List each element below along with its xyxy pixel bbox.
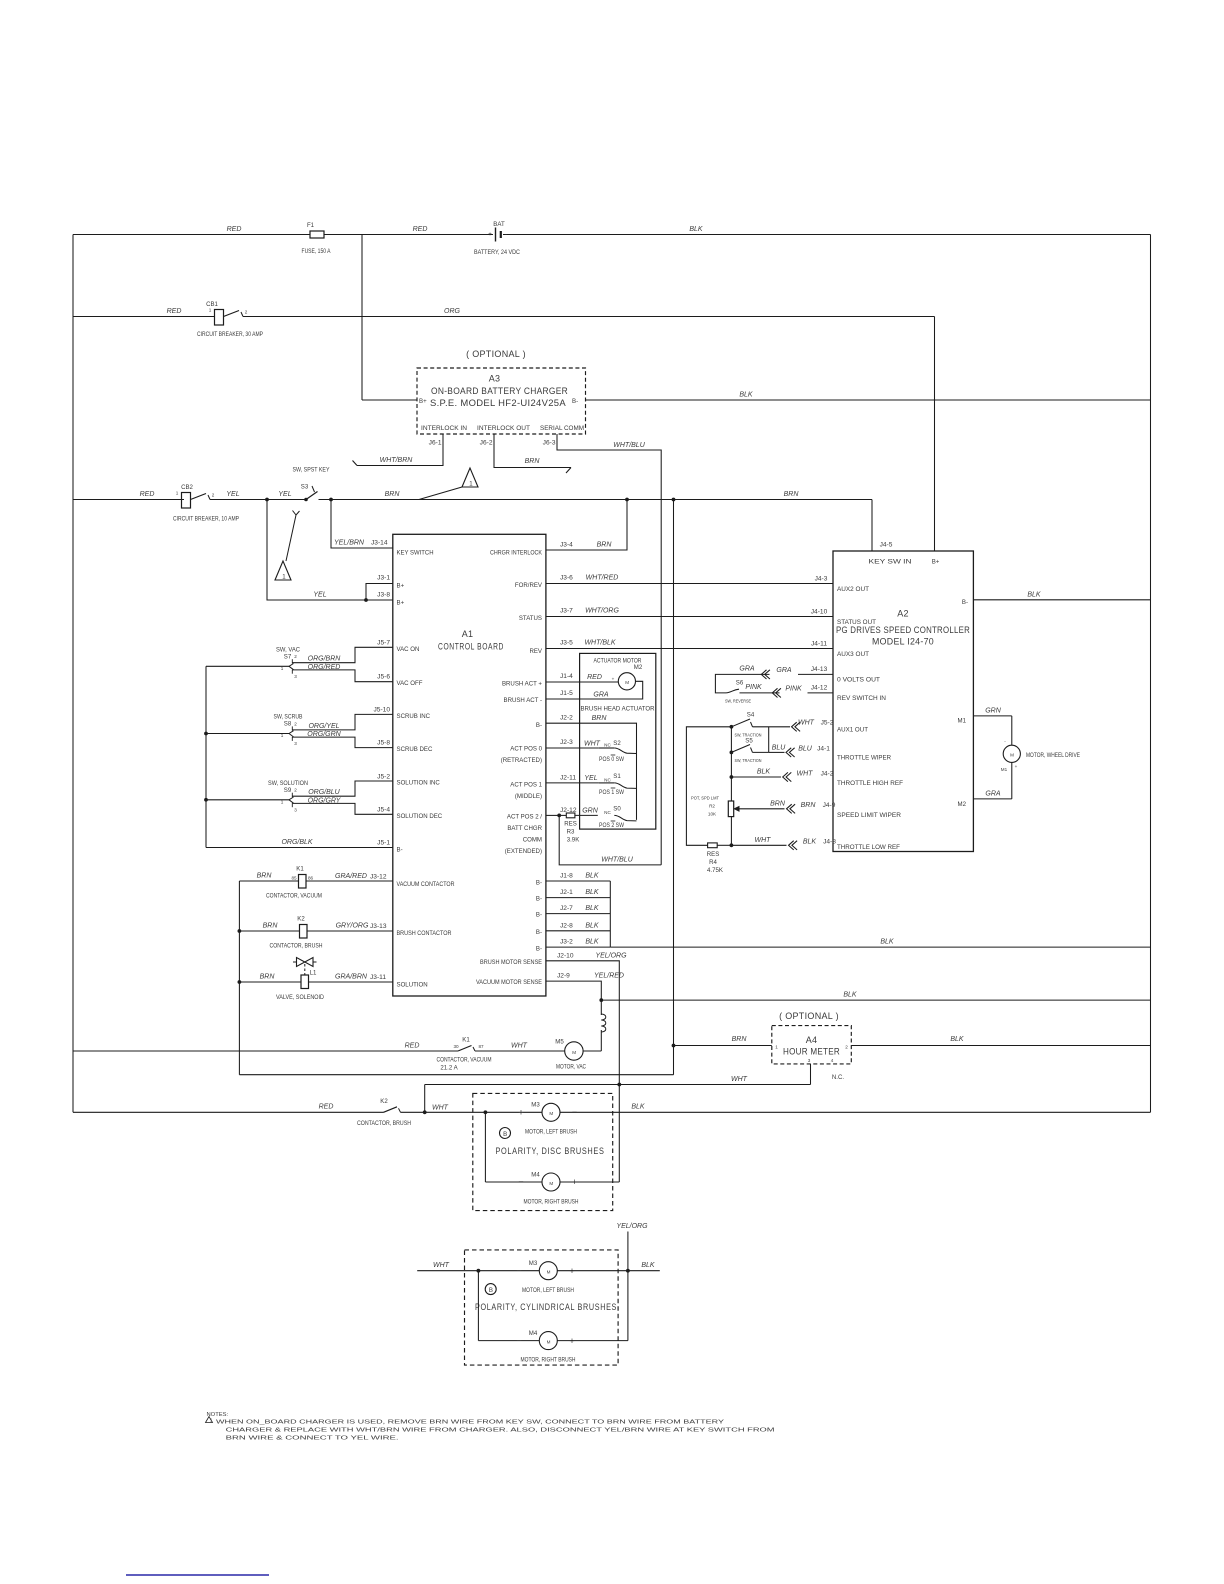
svg-text:1: 1 xyxy=(281,666,284,671)
svg-text:1: 1 xyxy=(210,1418,213,1423)
svg-text:−: − xyxy=(518,1177,523,1187)
svg-text:PINK: PINK xyxy=(785,685,802,692)
wire YEL/BRN to A1 J3-14 xyxy=(331,500,393,549)
page frame top wire (battery positive RED/BLK bus) xyxy=(73,234,310,236)
svg-text:WHT/BRN: WHT/BRN xyxy=(380,457,414,464)
cylindrical brush motor M4 MOTOR RIGHT BRUSH xyxy=(477,1271,479,1341)
svg-text:WHT: WHT xyxy=(755,837,772,844)
svg-text:REV SWITCH IN: REV SWITCH IN xyxy=(837,695,886,702)
svg-text:1: 1 xyxy=(176,491,179,496)
svg-text:S4: S4 xyxy=(747,712,755,719)
svg-text:BLK: BLK xyxy=(757,769,771,776)
svg-text:PG DRIVES SPEED CONTROLLER: PG DRIVES SPEED CONTROLLER xyxy=(836,625,970,635)
contactor coil K2 CONTACTOR BRUSH xyxy=(239,930,299,932)
svg-text:1: 1 xyxy=(281,799,284,804)
svg-text:+: + xyxy=(488,231,492,238)
svg-text:J3-6: J3-6 xyxy=(560,575,573,582)
svg-text:+: + xyxy=(518,1108,523,1118)
wire ORG row xyxy=(73,316,215,318)
svg-text:10K: 10K xyxy=(708,812,717,817)
svg-text:VACUUM MOTOR SENSE: VACUUM MOTOR SENSE xyxy=(476,979,542,986)
svg-text:BATTERY, 24 VDC: BATTERY, 24 VDC xyxy=(474,249,521,256)
svg-text:J2-9: J2-9 xyxy=(557,973,570,980)
svg-text:J4-1: J4-1 xyxy=(817,746,830,753)
svg-text:4: 4 xyxy=(831,1058,834,1063)
svg-text:WHT: WHT xyxy=(433,1262,450,1269)
svg-text:J4-11: J4-11 xyxy=(811,641,827,648)
wire BLK/WHT throttle high ref J4-2 xyxy=(731,776,781,778)
svg-text:ORG/RED: ORG/RED xyxy=(308,664,341,671)
svg-text:J3-4: J3-4 xyxy=(560,542,573,549)
wire WHT brush feed row xyxy=(425,1084,811,1086)
svg-text:BLK: BLK xyxy=(843,992,857,999)
svg-text:SW, SOLUTION: SW, SOLUTION xyxy=(268,780,308,787)
wire BRN to hour meter pin 1 xyxy=(674,1045,772,1047)
svg-text:4.75K: 4.75K xyxy=(707,867,723,874)
svg-text:SW, TRACTION: SW, TRACTION xyxy=(735,758,762,763)
svg-text:YEL: YEL xyxy=(278,491,291,498)
svg-text:WHT: WHT xyxy=(797,770,814,777)
wire ORG/BLK to J5-1 xyxy=(206,847,393,849)
svg-text:M2: M2 xyxy=(634,664,643,671)
svg-text:R4: R4 xyxy=(709,859,717,866)
wire A1 J3-6 to A2 J4-3 WHT/RED xyxy=(546,583,833,585)
traction switch S5 + BLU to J4-1 xyxy=(730,727,732,801)
svg-text:J4-9: J4-9 xyxy=(823,802,836,809)
polarity marker B (cylindrical) xyxy=(485,1284,496,1295)
svg-text:BRN: BRN xyxy=(257,873,273,880)
battery BAT 24VDC xyxy=(495,228,497,242)
svg-text:3: 3 xyxy=(294,807,297,812)
junction key row to J3-8 xyxy=(266,498,269,501)
svg-text:BRN: BRN xyxy=(592,715,608,722)
svg-text:BLK: BLK xyxy=(880,939,894,946)
svg-text:J4-3: J4-3 xyxy=(815,576,828,583)
svg-text:J2-1: J2-1 xyxy=(560,889,573,896)
svg-text:RED: RED xyxy=(227,226,242,233)
svg-text:STATUS OUT: STATUS OUT xyxy=(837,619,876,626)
wire BLK hour meter pin 2 to right rail xyxy=(851,1045,1150,1047)
svg-text:B-: B- xyxy=(536,880,542,887)
svg-text:SW, SCRUB: SW, SCRUB xyxy=(274,714,303,721)
resistor R3 3.9K xyxy=(546,814,559,816)
svg-text:BRUSH MOTOR SENSE: BRUSH MOTOR SENSE xyxy=(480,959,542,966)
svg-text:WHT/RED: WHT/RED xyxy=(586,575,619,582)
svg-text:BLK: BLK xyxy=(641,1262,655,1269)
wire S9 ORG/BLU xyxy=(292,781,393,796)
svg-text:M1: M1 xyxy=(1001,767,1008,772)
control board A1 box xyxy=(393,534,546,996)
svg-text:J3-13: J3-13 xyxy=(370,923,387,930)
contactor coil K1 CONTACTOR VACUUM xyxy=(239,880,298,882)
svg-text:GRA: GRA xyxy=(739,666,755,673)
svg-text:J1-8: J1-8 xyxy=(560,873,573,880)
svg-text:1: 1 xyxy=(281,733,284,738)
svg-text:J5-10: J5-10 xyxy=(374,707,391,714)
wire S8 ORG/YEL xyxy=(292,714,393,730)
left rail wire xyxy=(72,235,74,1113)
svg-text:K2: K2 xyxy=(297,916,305,923)
BRN bus vertical (key power to coils) xyxy=(673,500,675,1075)
key switch S3 SPST xyxy=(306,492,318,500)
svg-text:2: 2 xyxy=(212,493,215,498)
position switch S0 POS 2 SW xyxy=(614,815,636,821)
svg-text:YEL: YEL xyxy=(226,491,239,498)
svg-text:BRN: BRN xyxy=(525,458,541,465)
resistor R4 4.75K xyxy=(708,843,718,848)
svg-text:NC: NC xyxy=(604,743,611,748)
svg-text:J6-1: J6-1 xyxy=(429,440,442,447)
svg-text:J2-7: J2-7 xyxy=(560,905,573,912)
svg-text:J2-2: J2-2 xyxy=(560,715,573,722)
svg-text:BLK: BLK xyxy=(1027,592,1041,599)
svg-text:MOTOR, WHEEL DRIVE: MOTOR, WHEEL DRIVE xyxy=(1026,752,1080,759)
svg-text:0 VOLTS OUT: 0 VOLTS OUT xyxy=(837,677,880,684)
svg-text:POLARITY, CYLINDRICAL BRUSHES: POLARITY, CYLINDRICAL BRUSHES xyxy=(475,1302,617,1312)
svg-text:INTERLOCK IN: INTERLOCK IN xyxy=(421,425,467,432)
note triangle 1 (near charger) xyxy=(462,468,478,487)
svg-text:S5: S5 xyxy=(745,738,753,745)
svg-text:KEY SWITCH: KEY SWITCH xyxy=(397,550,434,557)
svg-text:VACUUM CONTACTOR: VACUUM CONTACTOR xyxy=(397,881,456,888)
svg-text:VALVE, SOLENOID: VALVE, SOLENOID xyxy=(276,994,325,1001)
svg-text:J2-10: J2-10 xyxy=(557,953,574,960)
svg-text:K2: K2 xyxy=(380,1098,388,1105)
wire BRN speed limit wiper J4-9 xyxy=(737,808,785,810)
svg-text:YEL/RED: YEL/RED xyxy=(594,973,624,980)
svg-text:BLK: BLK xyxy=(585,873,599,880)
wire WHT into cylindrical box xyxy=(417,1270,539,1272)
svg-text:S3: S3 xyxy=(301,484,309,491)
svg-text:ACT POS 2 /: ACT POS 2 / xyxy=(507,814,542,821)
note triangle 1 (near key switch) xyxy=(275,561,291,580)
svg-text:HOUR METER: HOUR METER xyxy=(783,1047,840,1057)
svg-text:WHT: WHT xyxy=(798,719,815,726)
circuit breaker CB2 10 AMP xyxy=(182,493,191,509)
svg-text:1: 1 xyxy=(209,308,212,313)
wire from top rail down to charger B+ xyxy=(361,235,363,401)
svg-text:POS 1 SW: POS 1 SW xyxy=(599,789,624,796)
svg-text:BRUSH ACT +: BRUSH ACT + xyxy=(502,681,542,688)
svg-text:K1: K1 xyxy=(296,866,304,873)
svg-text:3: 3 xyxy=(294,741,297,746)
svg-text:J3-14: J3-14 xyxy=(371,540,388,547)
svg-text:THROTTLE LOW REF: THROTTLE LOW REF xyxy=(837,844,900,851)
svg-text:J2-12: J2-12 xyxy=(560,807,577,814)
svg-text:2: 2 xyxy=(245,310,248,315)
svg-text:BLK: BLK xyxy=(689,226,703,233)
svg-text:ORG/GRY: ORG/GRY xyxy=(308,797,342,804)
svg-text:J4-8: J4-8 xyxy=(823,839,836,846)
svg-text:J5-7: J5-7 xyxy=(377,640,390,647)
svg-text:BRN WIRE & CONNECT TO YEL WIRE: BRN WIRE & CONNECT TO YEL WIRE. xyxy=(226,1436,400,1442)
svg-text:BLK: BLK xyxy=(950,1036,964,1043)
svg-text:YEL/ORG: YEL/ORG xyxy=(616,1223,648,1230)
wire M4 + up to WHT junction xyxy=(560,1181,619,1183)
svg-text:BLK: BLK xyxy=(803,839,817,846)
wire J2-10 BRUSH MOTOR SENSE YEL/ORG xyxy=(546,961,619,1182)
svg-text:ORG: ORG xyxy=(444,308,461,315)
svg-text:S7: S7 xyxy=(284,654,292,661)
svg-text:CONTACTOR, VACUUM: CONTACTOR, VACUUM xyxy=(266,893,322,900)
svg-text:S1: S1 xyxy=(613,773,621,780)
wheel drive motor M1 xyxy=(973,715,1011,717)
svg-text:M: M xyxy=(572,1050,576,1055)
BRN bus bottom rail to coil bus xyxy=(239,1074,673,1076)
polarity disc brushes dashed box xyxy=(473,1093,613,1210)
svg-text:CIRCUIT BREAKER, 30 AMP: CIRCUIT BREAKER, 30 AMP xyxy=(197,331,263,338)
svg-text:BATT CHGR: BATT CHGR xyxy=(507,825,542,832)
svg-text:(MIDDLE): (MIDDLE) xyxy=(515,793,542,800)
svg-text:85: 85 xyxy=(291,876,297,881)
cylindrical brush motor M3 MOTOR LEFT BRUSH xyxy=(539,1262,557,1280)
svg-text:S8: S8 xyxy=(284,721,292,728)
svg-text:B: B xyxy=(503,1131,507,1138)
wire WHT hour meter pin 3 xyxy=(810,1064,812,1085)
svg-text:M2: M2 xyxy=(958,801,967,808)
svg-text:YEL/ORG: YEL/ORG xyxy=(595,953,627,960)
svg-text:M: M xyxy=(549,1111,553,1116)
svg-text:WHT/BLU: WHT/BLU xyxy=(601,857,633,864)
svg-text:BRN: BRN xyxy=(385,491,401,498)
svg-text:BRUSH ACT -: BRUSH ACT - xyxy=(504,697,543,704)
disc brush motor M4 MOTOR RIGHT BRUSH xyxy=(484,1112,486,1182)
svg-text:(RETRACTED): (RETRACTED) xyxy=(501,757,542,764)
switch common bus to J5-1 ORG/BLK xyxy=(205,666,207,847)
svg-text:M3: M3 xyxy=(531,1102,540,1109)
blue rule bottom left xyxy=(126,1574,269,1576)
svg-text:2: 2 xyxy=(294,654,297,659)
svg-text:86: 86 xyxy=(308,876,314,881)
svg-text:AUX3 OUT: AUX3 OUT xyxy=(837,651,869,658)
wire WHT/BLK throttle low ref J4-8 xyxy=(731,844,786,846)
svg-text:M3: M3 xyxy=(529,1260,538,1267)
svg-text:−: − xyxy=(516,1266,521,1276)
wire BLK vac motor return to right rail xyxy=(601,999,1150,1001)
svg-text:COMM: COMM xyxy=(523,837,542,844)
svg-text:A4: A4 xyxy=(806,1035,818,1045)
svg-text:J3-5: J3-5 xyxy=(560,640,573,647)
svg-text:B+: B+ xyxy=(397,600,405,607)
wire ORG to A2 B+ xyxy=(934,317,936,552)
svg-text:( OPTIONAL ): ( OPTIONAL ) xyxy=(466,349,526,359)
svg-text:VAC ON: VAC ON xyxy=(397,646,420,653)
svg-text:ORG/GRN: ORG/GRN xyxy=(307,731,341,738)
junction key row to J3-14 xyxy=(330,498,333,501)
wire key row to A2 KEY SW IN J4-5 xyxy=(871,500,873,552)
svg-text:SOLUTION DEC: SOLUTION DEC xyxy=(397,813,443,820)
svg-text:ORG/BLU: ORG/BLU xyxy=(308,789,340,796)
wire A1 J3-4 CHRGR INTERLOCK BRN xyxy=(546,500,627,551)
wire charger J6-1 INTERLOCK IN WHT/BRN xyxy=(357,434,443,466)
svg-text:L1: L1 xyxy=(310,970,317,977)
wire S7 ORG/RED xyxy=(292,670,393,682)
svg-text:M5: M5 xyxy=(555,1039,564,1046)
svg-text:CONTACTOR, VACUUM: CONTACTOR, VACUUM xyxy=(437,1057,492,1064)
svg-text:ACT POS 0: ACT POS 0 xyxy=(510,746,542,753)
svg-text:J5-2: J5-2 xyxy=(377,774,390,781)
svg-text:YEL/BRN: YEL/BRN xyxy=(334,540,365,547)
right rail wire xyxy=(1150,235,1152,1113)
svg-text:B+: B+ xyxy=(419,398,427,405)
svg-text:MOTOR, LEFT BRUSH: MOTOR, LEFT BRUSH xyxy=(525,1129,577,1136)
svg-text:J2-8: J2-8 xyxy=(560,923,573,930)
vacuum motor M5 xyxy=(565,1042,583,1060)
svg-text:M: M xyxy=(547,1270,551,1275)
wire WHT/BLU from J2-12 to serial vertical xyxy=(559,815,661,865)
svg-text:J5-6: J5-6 xyxy=(377,674,390,681)
svg-text:GRA: GRA xyxy=(776,667,792,674)
wire J2-9 VACUUM MOTOR SENSE YEL/RED xyxy=(546,981,601,1000)
svg-text:30: 30 xyxy=(453,1044,459,1049)
svg-text:B: B xyxy=(489,1287,493,1294)
wire M2 return GRA to J1-5 xyxy=(546,681,643,699)
svg-text:SCRUB INC: SCRUB INC xyxy=(397,713,431,720)
svg-text:3.9K: 3.9K xyxy=(567,837,580,844)
svg-text:S2: S2 xyxy=(613,740,621,747)
svg-text:VAC OFF: VAC OFF xyxy=(397,680,423,687)
wire charger J6-2 INTERLOCK OUT BRN xyxy=(494,434,571,468)
svg-text:N.C.: N.C. xyxy=(832,1074,844,1081)
svg-text:RED: RED xyxy=(319,1104,334,1111)
svg-text:MOTOR, LEFT BRUSH: MOTOR, LEFT BRUSH xyxy=(522,1287,574,1294)
svg-text:ORG/YEL: ORG/YEL xyxy=(308,723,339,730)
svg-text:POLARITY, DISC BRUSHES: POLARITY, DISC BRUSHES xyxy=(496,1146,605,1156)
svg-text:J5-8: J5-8 xyxy=(377,740,390,747)
inductor coil above vac motor xyxy=(600,1000,602,1015)
svg-text:A1: A1 xyxy=(462,629,474,639)
svg-text:MOTOR, VAC: MOTOR, VAC xyxy=(556,1064,586,1071)
svg-text:K1: K1 xyxy=(462,1037,470,1044)
svg-text:SPEED LIMIT WIPER: SPEED LIMIT WIPER xyxy=(837,812,902,819)
svg-text:CHRGR INTERLOCK: CHRGR INTERLOCK xyxy=(490,550,542,557)
junction key row BRN to J3-4 xyxy=(626,498,629,501)
svg-text:3: 3 xyxy=(808,1058,811,1063)
svg-text:R3: R3 xyxy=(567,829,575,836)
svg-text:J1-5: J1-5 xyxy=(560,690,573,697)
svg-text:BLK: BLK xyxy=(631,1104,645,1111)
svg-text:PINK: PINK xyxy=(745,684,762,691)
wire S7 ORG/BRN xyxy=(292,647,393,662)
svg-text:FUSE, 150 A: FUSE, 150 A xyxy=(302,248,332,255)
svg-text:B-: B- xyxy=(536,722,542,729)
svg-text:J4-13: J4-13 xyxy=(811,666,828,673)
svg-text:RED: RED xyxy=(405,1043,420,1050)
svg-text:GRA/BRN: GRA/BRN xyxy=(335,974,368,981)
traction switch S4 xyxy=(686,727,731,846)
svg-text:BRN: BRN xyxy=(263,923,279,930)
svg-text:1: 1 xyxy=(775,1045,778,1050)
svg-text:J4-2: J4-2 xyxy=(821,770,834,777)
svg-text:J4-10: J4-10 xyxy=(811,609,828,616)
contactor contact K1 row RED/WHT xyxy=(73,1050,458,1052)
svg-text:( OPTIONAL ): ( OPTIONAL ) xyxy=(779,1011,839,1021)
svg-text:M: M xyxy=(549,1181,553,1186)
svg-text:NC: NC xyxy=(604,778,611,783)
A1 B- ladder J1-8 J2-1 J2-7 J2-8 J3-2 xyxy=(546,880,610,882)
svg-text:POT, SPD LMT: POT, SPD LMT xyxy=(691,796,719,801)
wire S8 ORG/GRN xyxy=(292,737,393,748)
svg-text:KEY SW IN: KEY SW IN xyxy=(869,559,912,566)
svg-text:J6-2: J6-2 xyxy=(480,440,493,447)
svg-text:SERIAL COMM: SERIAL COMM xyxy=(540,425,584,432)
svg-text:CB2: CB2 xyxy=(181,484,193,491)
svg-text:ORG/BLK: ORG/BLK xyxy=(281,839,312,846)
svg-text:RED: RED xyxy=(167,308,182,315)
svg-text:MODEL I24-70: MODEL I24-70 xyxy=(872,637,934,647)
svg-text:POS 0 SW: POS 0 SW xyxy=(599,756,624,763)
svg-text:WHT: WHT xyxy=(432,1105,449,1112)
svg-text:GRA: GRA xyxy=(985,791,1001,798)
brush head actuator box xyxy=(580,653,656,829)
svg-text:GRN: GRN xyxy=(582,808,599,815)
svg-text:2: 2 xyxy=(845,1045,848,1050)
svg-text:MOTOR, RIGHT BRUSH: MOTOR, RIGHT BRUSH xyxy=(524,1199,579,1206)
wire charger B- BLK to right rail xyxy=(586,399,1151,401)
svg-text:A2: A2 xyxy=(897,609,909,619)
svg-text:CHARGER & REPLACE WITH WHT/BRN: CHARGER & REPLACE WITH WHT/BRN WIRE FROM… xyxy=(226,1428,775,1434)
svg-text:BRN: BRN xyxy=(784,491,800,498)
svg-text:+: + xyxy=(612,677,615,682)
svg-text:+: + xyxy=(1015,764,1018,769)
wire M4 + to YEL/ORG stub xyxy=(557,1340,628,1342)
svg-text:INTERLOCK OUT: INTERLOCK OUT xyxy=(477,425,530,432)
svg-text:87: 87 xyxy=(478,1044,484,1049)
svg-text:GRA: GRA xyxy=(593,692,609,699)
svg-text:J2-3: J2-3 xyxy=(560,739,573,746)
svg-text:−: − xyxy=(516,1336,521,1346)
svg-text:M4: M4 xyxy=(531,1172,540,1179)
position switch S2 POS 0 SW xyxy=(546,747,599,749)
svg-text:CONTACTOR, BRUSH: CONTACTOR, BRUSH xyxy=(357,1120,411,1127)
svg-text:GRN: GRN xyxy=(985,708,1002,715)
svg-text:-: - xyxy=(505,231,507,238)
wire A1 J3-7 to A2 J4-10 WHT/ORG xyxy=(546,616,833,618)
svg-text:B+: B+ xyxy=(397,583,405,590)
junction key row BRN bus xyxy=(672,498,675,501)
position switch S1 POS 1 SW xyxy=(546,782,599,784)
svg-text:ORG/BRN: ORG/BRN xyxy=(308,656,342,663)
svg-text:WHT/BLU: WHT/BLU xyxy=(613,442,645,449)
svg-text:SCRUB DEC: SCRUB DEC xyxy=(397,746,433,753)
svg-text:J3-8: J3-8 xyxy=(377,592,390,599)
svg-text:WHEN ON_BOARD CHARGER IS USED,: WHEN ON_BOARD CHARGER IS USED, REMOVE BR… xyxy=(216,1420,724,1426)
wire A2 B- BLK to right rail xyxy=(973,599,1150,601)
svg-text:F1: F1 xyxy=(307,222,315,229)
svg-text:3: 3 xyxy=(294,674,297,679)
svg-text:FOR/REV: FOR/REV xyxy=(515,582,543,589)
svg-text:SW, VAC: SW, VAC xyxy=(276,647,301,654)
svg-text:J5-1: J5-1 xyxy=(377,840,390,847)
svg-text:BRN: BRN xyxy=(260,974,276,981)
polarity marker B (disc) xyxy=(500,1128,511,1139)
wire A1 J2-2 BRN actuator common xyxy=(546,723,637,820)
svg-text:M: M xyxy=(1010,753,1014,758)
fuse F1 xyxy=(310,231,324,238)
svg-text:J3-2: J3-2 xyxy=(560,939,573,946)
wire YEL/ORG stub (cylindrical option) xyxy=(627,1232,629,1341)
svg-text:SOLUTION INC: SOLUTION INC xyxy=(397,780,441,787)
svg-text:BLU: BLU xyxy=(798,746,813,753)
svg-text:-: - xyxy=(1004,739,1006,744)
svg-text:SOLUTION: SOLUTION xyxy=(397,982,428,989)
svg-text:B+: B+ xyxy=(932,559,940,566)
contactor contact K2 row bottom xyxy=(73,1111,384,1113)
svg-text:RED: RED xyxy=(140,491,155,498)
svg-text:BAT: BAT xyxy=(493,221,505,228)
svg-text:2: 2 xyxy=(294,788,297,793)
svg-text:WHT: WHT xyxy=(511,1043,528,1050)
